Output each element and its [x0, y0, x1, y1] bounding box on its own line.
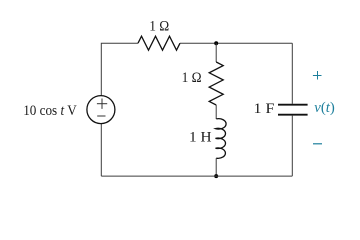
voltage source VS circle: [87, 96, 115, 124]
inductor L1 1H (vertical coil): [216, 119, 227, 159]
svg-text:1 F: 1 F: [254, 101, 275, 117]
node A (top junction dot): [214, 41, 218, 45]
label v(t) (capacitor voltage, cyan): [314, 100, 335, 116]
svg-text:10 cos t V: 10 cos t V: [23, 103, 77, 119]
label 1 Ω (top resistor): [149, 19, 169, 35]
wire capacitor branch bottom: [291, 116, 293, 177]
wire capacitor branch top: [291, 43, 293, 104]
svg-text:1 Ω: 1 Ω: [182, 70, 202, 86]
wire node A down to R2: [215, 43, 217, 62]
svg-text:1 H: 1 H: [189, 129, 212, 145]
label + (capacitor polarity, cyan): [313, 71, 322, 80]
label 10 cos t V (source value): [23, 103, 77, 119]
svg-text:v(t): v(t): [314, 100, 335, 116]
wire L1 to bottom node: [215, 158, 217, 176]
voltage source minus sign: [97, 115, 105, 117]
voltage source plus sign: [97, 99, 107, 109]
wire source bottom segment: [100, 123, 102, 176]
resistor R2 1Ω (middle, vertical): [209, 62, 223, 105]
label 1 H (inductor): [189, 129, 212, 145]
node B (bottom junction dot): [214, 174, 218, 178]
svg-text:1 Ω: 1 Ω: [149, 19, 169, 35]
label - (capacitor polarity, cyan): [313, 143, 322, 145]
capacitor C1 1F plates: [278, 105, 308, 115]
resistor R1 1Ω (top, horizontal): [138, 36, 180, 50]
wire R2 to L1: [215, 105, 217, 119]
wire bottom rail: [101, 175, 292, 177]
wire top-right segment (resistor to capacitor branch): [180, 42, 292, 44]
wire top-left segment (source top to resistor): [101, 43, 138, 96]
label 1 F (capacitor): [254, 101, 275, 117]
label 1 Ω (middle resistor): [182, 70, 202, 86]
